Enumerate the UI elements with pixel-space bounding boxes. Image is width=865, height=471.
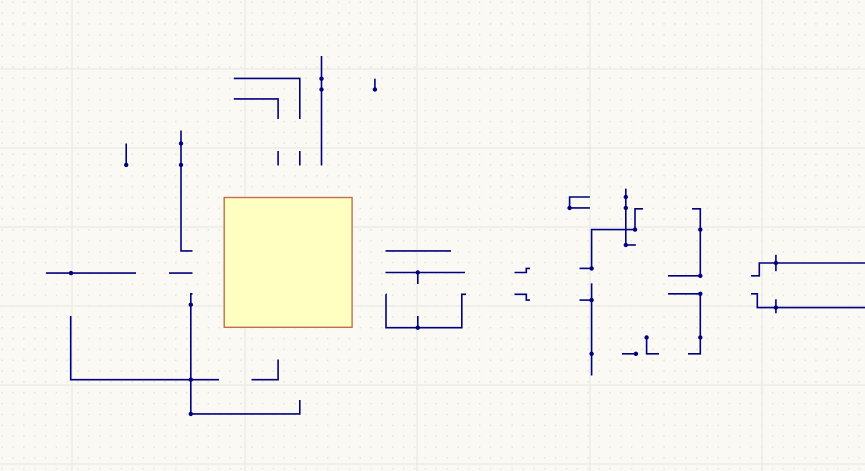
wire RF2 left to C12 left [647,338,659,354]
wire VCC3.3V right rail [625,189,627,245]
wire R5 bottom to pin15 [277,151,279,166]
wire R2 bottom to R4 [71,316,219,380]
wire pin11 to GND [386,250,452,252]
wire VCC3.3V top to pin13 [321,56,323,166]
wire VCC rail down left [181,131,193,251]
wire OUTN pin9 down [386,294,466,327]
wire R9 to RI1 jog [515,268,531,272]
wire IN to pin3 IN1 [46,272,136,274]
wire RF1 right down to pin5 [699,230,701,276]
wire R7 bottom [299,400,301,415]
wire C11 top lead [775,308,777,314]
wire OUTP net pin10 to R9 [386,272,466,274]
wire opamp power pins link [626,244,636,246]
wire gnd rail bottom [190,413,300,415]
wire R3 to pin3 [169,272,193,274]
wire C8 bottom to OUT- [775,255,777,263]
wire G1 net [234,78,300,119]
wire R1 to OUT- [751,263,865,276]
wire C14 right to pin6 [622,353,636,355]
wire R8 top lead [417,273,419,285]
wire RF2 C12 right to pin4 [688,294,700,354]
IC U1 body [224,198,352,328]
wire R4 right to pin6 [252,360,279,380]
wire C3 C9 left to GND [570,197,590,208]
wire R6 bottom to pin14 [299,151,301,166]
wire opamp pin2 vocm down [591,284,594,375]
wire pin4 to R11 [668,293,702,295]
wire pin4 pin17 down to gnd rail [191,294,193,414]
wire G0 net [234,99,278,119]
wire C10 leads [775,263,777,308]
wire R10 to RI2 jog [515,294,531,300]
wire C1 left to C2 left [125,144,127,165]
wire pin5 to R1 [668,275,702,277]
wire RI1 to opamp pin8 [580,267,593,269]
wire R8 bottom lead [417,316,419,328]
wire C4 left down to RF1 left [635,209,643,230]
wire RI2 to opamp pin1 [580,299,593,301]
wire C6 C7 right to GND [374,79,376,90]
wire C4 right down to RF1 right [692,209,700,230]
wire RF1 left feedback to pin8 [592,230,635,269]
wire R11 to OUT+ [751,294,865,308]
